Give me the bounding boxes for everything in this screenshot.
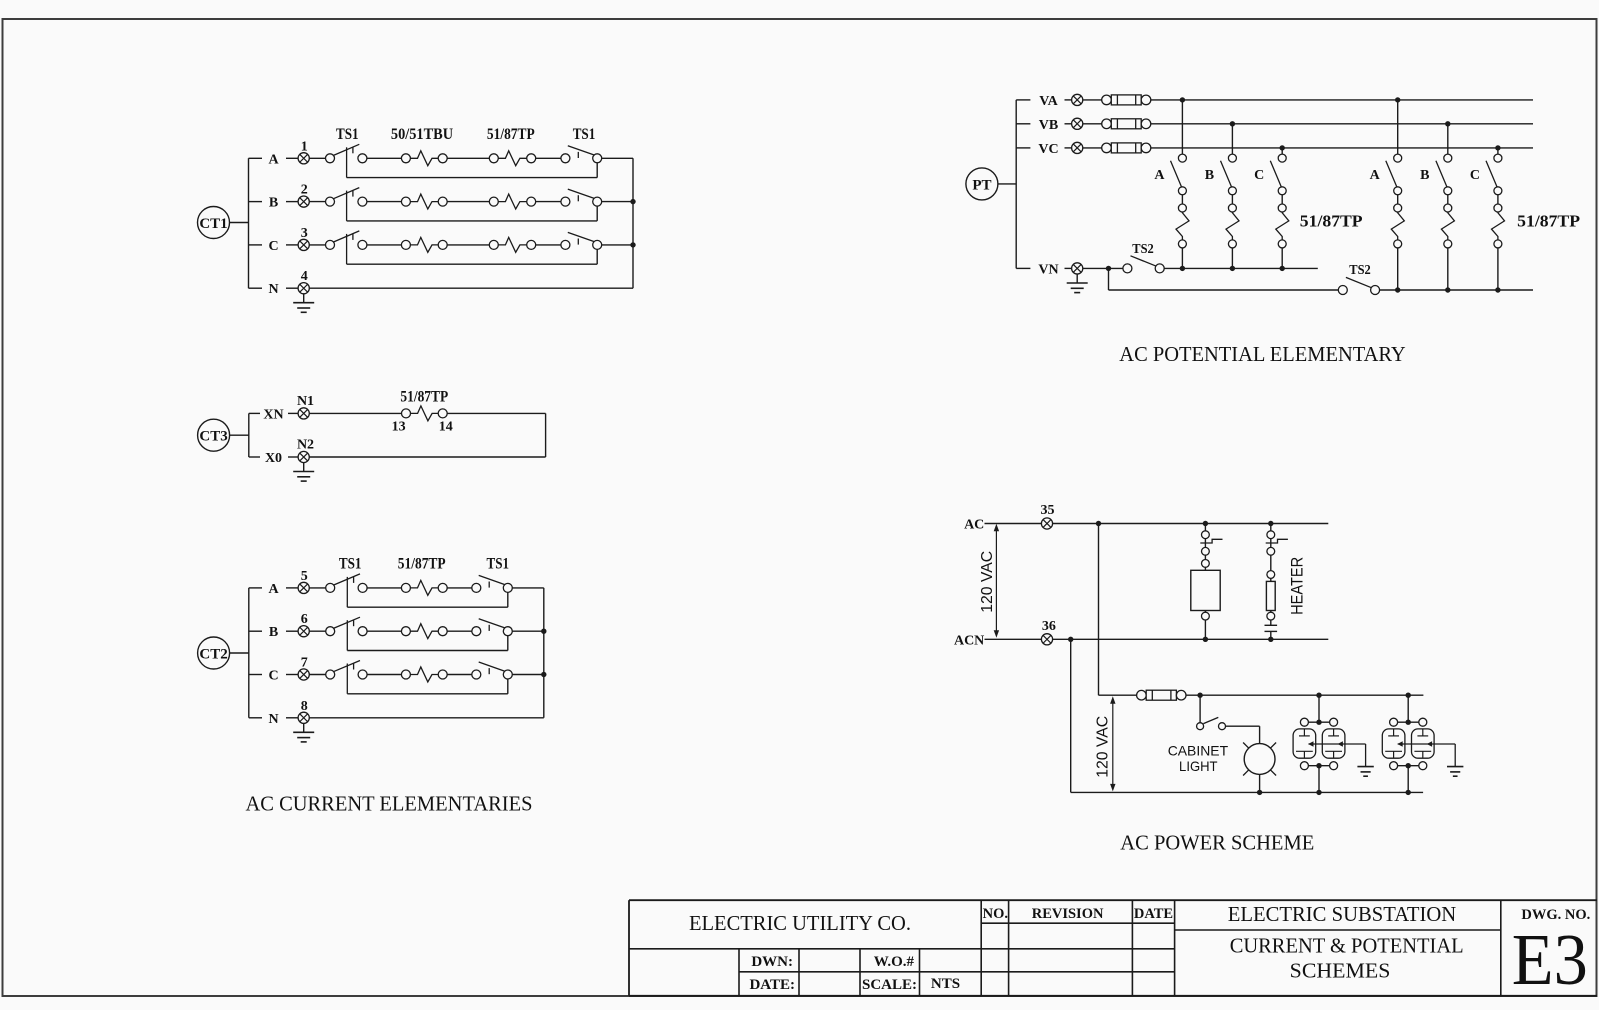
svg-text:TS1: TS1 bbox=[339, 556, 362, 573]
svg-text:TS2: TS2 bbox=[1349, 263, 1371, 278]
svg-text:B: B bbox=[269, 625, 278, 640]
svg-text:SCALE:: SCALE: bbox=[862, 977, 917, 993]
duplex receptacle bbox=[1293, 695, 1345, 792]
junction on CT2 right bus row B bbox=[541, 629, 546, 634]
junction phase B tap bbox=[1445, 121, 1450, 126]
thermostat contact branch 1 bbox=[1200, 524, 1222, 568]
terminal 7 bbox=[298, 656, 309, 681]
wire: shorting loop below row B bbox=[347, 636, 508, 651]
svg-text:C: C bbox=[268, 239, 278, 254]
svg-text:B: B bbox=[1205, 168, 1214, 183]
node VB label bbox=[1016, 118, 1071, 133]
label HEATER bbox=[1288, 557, 1307, 615]
fuse switch A with relay 51/87TP element bbox=[1386, 100, 1405, 290]
node N label (CT1) bbox=[249, 282, 299, 297]
junction receptacle return at x=1319 bbox=[1316, 790, 1321, 795]
relay element (resistor) row B bbox=[367, 624, 447, 639]
label 51/87TP (CT3) bbox=[400, 389, 448, 406]
svg-text:CT3: CT3 bbox=[199, 429, 227, 445]
terminal N2 bbox=[297, 438, 314, 463]
svg-text:C: C bbox=[1254, 168, 1264, 183]
text W.O.# bbox=[874, 954, 915, 970]
relay element (resistor) row A bbox=[367, 151, 447, 166]
heater element box (branch 1) bbox=[1191, 567, 1220, 639]
node XN label bbox=[249, 407, 298, 422]
switch for cabinet light bbox=[1197, 695, 1260, 743]
relay element (resistor) row B bbox=[367, 194, 447, 209]
node VC label bbox=[1016, 142, 1071, 157]
svg-text:36: 36 bbox=[1042, 619, 1056, 634]
svg-text:AC: AC bbox=[964, 518, 984, 533]
relay element (resistor) row C bbox=[447, 237, 536, 252]
ground symbol (receptacle) bbox=[1447, 767, 1463, 777]
svg-text:CABINET: CABINET bbox=[1168, 743, 1229, 759]
text SCHEMES bbox=[1290, 959, 1391, 983]
svg-text:3: 3 bbox=[301, 226, 308, 241]
junction lamp at return line bbox=[1257, 790, 1262, 795]
svg-text:XN: XN bbox=[263, 407, 283, 422]
wire: CT1 left bus bbox=[248, 158, 250, 288]
title block inner verticals (left part) bbox=[739, 949, 920, 996]
title: AC CURRENT ELEMENTARIES bbox=[246, 792, 533, 816]
terminal VA bbox=[1072, 94, 1083, 105]
svg-text:B: B bbox=[1420, 168, 1429, 183]
thermal cutout (branch 2) bbox=[1265, 620, 1278, 639]
svg-text:A: A bbox=[268, 582, 279, 597]
wire: neutral bus 1 (group 1) bbox=[1164, 267, 1318, 269]
wire: VN to TS2 bbox=[1083, 267, 1123, 269]
wire: drop from AC to lower feed bbox=[1098, 524, 1100, 696]
thermostat contact branch 2 bbox=[1266, 524, 1288, 579]
svg-text:51/87TP: 51/87TP bbox=[487, 126, 535, 143]
node VA label bbox=[1016, 94, 1071, 109]
test switch TS1 contact, row B bbox=[309, 188, 367, 221]
svg-text:CT1: CT1 bbox=[199, 216, 227, 232]
svg-text:A: A bbox=[1154, 168, 1165, 183]
ground symbol below terminal N2 bbox=[293, 463, 314, 482]
ground symbol below terminal 8 bbox=[293, 723, 314, 742]
wire: lower feed after fuse bbox=[1186, 694, 1423, 696]
svg-text:TS1: TS1 bbox=[573, 126, 596, 143]
text NO. bbox=[983, 906, 1008, 922]
svg-text:SCHEMES: SCHEMES bbox=[1290, 959, 1391, 983]
node AC label bbox=[964, 518, 1041, 533]
terminal 6 bbox=[298, 612, 309, 637]
title block outer lines bbox=[629, 900, 1597, 996]
svg-text:TS2: TS2 bbox=[1132, 242, 1154, 257]
wire: neutral bus 2 (group 2) bbox=[1380, 289, 1533, 291]
wire: shorting loop below row C bbox=[347, 249, 598, 264]
current transformer CT3 bbox=[198, 419, 249, 451]
wire: shorting loop below row A bbox=[347, 592, 508, 607]
svg-text:DATE: DATE bbox=[1134, 906, 1173, 922]
label TS1 (CT1 right) bbox=[573, 126, 596, 143]
test switch TS1 shorting contact, row C bbox=[536, 232, 633, 249]
svg-text:B: B bbox=[269, 196, 278, 211]
wire: CT3 left bus bbox=[248, 413, 250, 457]
title: AC POTENTIAL ELEMENTARY bbox=[1119, 342, 1405, 366]
label 50/51TBU bbox=[391, 126, 453, 143]
relay element (resistor) row C bbox=[367, 237, 447, 252]
svg-text:NO.: NO. bbox=[983, 906, 1008, 922]
wire: CT1 right bus bbox=[632, 158, 634, 288]
resistor HEATER (branch 2) bbox=[1266, 578, 1275, 620]
terminal 5 bbox=[298, 569, 309, 594]
junction heater branch 2 at ACN bbox=[1268, 637, 1273, 642]
text DATE: bbox=[749, 977, 795, 993]
label 51/87TP (potential group 2) bbox=[1517, 212, 1580, 231]
terminal 4 bbox=[298, 269, 309, 294]
node A label (CT row) bbox=[249, 582, 298, 597]
test switch TS1 shorting contact, row A bbox=[447, 575, 544, 592]
wire: shorting loop below row A bbox=[347, 163, 598, 178]
wire: shorting loop below row C bbox=[347, 679, 508, 694]
label A (column) bbox=[1154, 168, 1165, 183]
wire: CT3 loop right side bbox=[309, 413, 545, 457]
receptacle ground wire bbox=[1308, 741, 1366, 766]
junction column A at neutral bus bbox=[1180, 266, 1185, 271]
junction heater branch 2 at AC bbox=[1268, 521, 1273, 526]
text SCALE: bbox=[862, 977, 917, 993]
svg-text:2: 2 bbox=[301, 183, 308, 198]
svg-text:VC: VC bbox=[1038, 142, 1058, 157]
fuse switch B with relay 51/87TP element bbox=[1221, 124, 1240, 269]
test switch TS1 contact, row C bbox=[309, 661, 367, 694]
junction VN branch bbox=[1106, 266, 1111, 271]
relay element (resistor) row A bbox=[367, 580, 447, 595]
terminal 3 bbox=[298, 226, 309, 251]
svg-text:VA: VA bbox=[1039, 94, 1058, 109]
svg-text:50/51TBU: 50/51TBU bbox=[391, 126, 453, 143]
fuse on VB bbox=[1083, 119, 1533, 129]
fuse switch B with relay 51/87TP element bbox=[1436, 124, 1455, 290]
terminal 36 bbox=[1041, 619, 1056, 645]
svg-text:C: C bbox=[1470, 168, 1480, 183]
svg-text:CURRENT & POTENTIAL: CURRENT & POTENTIAL bbox=[1230, 934, 1464, 958]
node A label (CT row) bbox=[249, 152, 299, 167]
ground symbol (receptacle) bbox=[1357, 767, 1373, 777]
junction column C at neutral bus bbox=[1495, 287, 1500, 292]
wire: shorting loop below row B bbox=[347, 206, 598, 221]
title block vertical dividers bbox=[981, 900, 1501, 996]
label 51/87TP (CT2) bbox=[398, 556, 446, 573]
svg-text:VB: VB bbox=[1039, 118, 1058, 133]
fuse switch C with relay 51/87TP element bbox=[1486, 148, 1505, 290]
svg-text:NTS: NTS bbox=[931, 976, 960, 992]
svg-text:8: 8 bbox=[301, 699, 308, 714]
terminal VC bbox=[1072, 142, 1083, 153]
svg-text:REVISION: REVISION bbox=[1032, 906, 1104, 922]
relay element (resistor) row C bbox=[367, 667, 447, 682]
fuse on VC bbox=[1083, 143, 1533, 153]
wire: CT2 neutral to right bus bbox=[309, 717, 544, 719]
svg-text:VN: VN bbox=[1038, 262, 1058, 277]
wire: ACN down to bottom return line bbox=[1071, 639, 1423, 792]
svg-text:AC POTENTIAL ELEMENTARY: AC POTENTIAL ELEMENTARY bbox=[1119, 342, 1405, 366]
junction column B at neutral bus bbox=[1230, 266, 1235, 271]
node N label (CT2) bbox=[249, 712, 298, 727]
svg-text:AC POWER SCHEME: AC POWER SCHEME bbox=[1120, 830, 1314, 854]
junction heater branch 1 at ACN bbox=[1203, 637, 1208, 642]
svg-text:7: 7 bbox=[301, 656, 308, 671]
fuse switch A with relay 51/87TP element bbox=[1171, 100, 1190, 269]
junction phase B tap bbox=[1230, 121, 1235, 126]
svg-text:4: 4 bbox=[301, 269, 308, 284]
duplex receptacle bbox=[1382, 695, 1434, 792]
junction heater branch 1 at AC bbox=[1203, 521, 1208, 526]
svg-text:TS1: TS1 bbox=[336, 126, 359, 143]
svg-text:13: 13 bbox=[392, 420, 406, 435]
ground symbol below terminal 4 bbox=[293, 294, 314, 313]
svg-text:LIGHT: LIGHT bbox=[1179, 758, 1218, 774]
junction receptacle return at x=1408.2 bbox=[1406, 790, 1411, 795]
label B (column) bbox=[1420, 168, 1429, 183]
fuse on lower feed bbox=[1137, 690, 1186, 700]
terminal 1 bbox=[298, 139, 309, 164]
node C label (CT row) bbox=[249, 669, 298, 684]
test switch TS1 shorting contact, row B bbox=[447, 619, 544, 636]
relay element (resistor) row B bbox=[447, 194, 536, 209]
test switch TS1 contact, row B bbox=[309, 617, 367, 650]
test switch TS1 shorting contact, row A bbox=[536, 146, 633, 163]
label TS1 (CT1 left) bbox=[336, 126, 359, 143]
label TS1 (CT2 left) bbox=[339, 556, 362, 573]
label TS1 (CT2 right) bbox=[487, 556, 510, 573]
label CABINET LIGHT bbox=[1168, 743, 1229, 774]
terminal 2 bbox=[298, 183, 309, 208]
label 51/87TP (potential group 1) bbox=[1300, 212, 1363, 231]
node ACN label bbox=[954, 633, 1041, 648]
svg-text:CT2: CT2 bbox=[199, 647, 227, 663]
relay element (resistor) row A bbox=[447, 151, 536, 166]
svg-text:E3: E3 bbox=[1512, 919, 1588, 1000]
text DWG. NO. bbox=[1521, 907, 1590, 923]
test switch TS2 (right) bbox=[1338, 263, 1379, 295]
svg-text:AC CURRENT ELEMENTARIES: AC CURRENT ELEMENTARIES bbox=[246, 792, 533, 816]
svg-text:51/87TP: 51/87TP bbox=[1300, 212, 1363, 231]
junction phase C tap bbox=[1280, 145, 1285, 150]
receptacle ground wire bbox=[1397, 741, 1455, 766]
ground symbol below VN terminal bbox=[1067, 274, 1088, 293]
text DATE bbox=[1134, 906, 1173, 922]
label B (column) bbox=[1205, 168, 1214, 183]
svg-text:A: A bbox=[268, 152, 279, 167]
relay 51/87TP neutral element (resistor), pins 13-14 bbox=[309, 406, 453, 435]
junction receptacle feed at x=1319 bbox=[1316, 693, 1321, 698]
label 51/87TP (CT1) bbox=[487, 126, 535, 143]
title: AC POWER SCHEME bbox=[1120, 830, 1314, 854]
junction phase C tap bbox=[1495, 145, 1500, 150]
dimension 120 VAC (lower) bbox=[1094, 696, 1115, 791]
svg-text:X0: X0 bbox=[265, 451, 282, 466]
test switch TS1 shorting contact, row B bbox=[536, 189, 633, 206]
dimension 120 VAC (upper) bbox=[979, 524, 999, 638]
test switch TS1 contact, row A bbox=[309, 144, 367, 177]
wire: CT1 neutral to right bus bbox=[309, 287, 633, 289]
svg-text:TS1: TS1 bbox=[487, 556, 510, 573]
node B label (CT row) bbox=[249, 196, 299, 211]
svg-text:ELECTRIC UTILITY CO.: ELECTRIC UTILITY CO. bbox=[689, 911, 911, 935]
svg-text:N: N bbox=[268, 282, 278, 297]
lamp CABINET LIGHT bbox=[1243, 743, 1276, 793]
wire: PT left bus bbox=[1015, 100, 1017, 269]
drawing number E3 bbox=[1512, 919, 1588, 1000]
svg-text:HEATER: HEATER bbox=[1288, 557, 1307, 615]
junction ACN to lower return bbox=[1068, 637, 1073, 642]
svg-text:51/87TP: 51/87TP bbox=[1517, 212, 1580, 231]
junction AC feed drop bbox=[1096, 521, 1101, 526]
text ELECTRIC SUBSTATION bbox=[1228, 902, 1456, 926]
junction column C at neutral bus bbox=[1280, 266, 1285, 271]
junction on CT1 right bus row B bbox=[630, 199, 635, 204]
potential transformer PT bbox=[966, 168, 1016, 200]
svg-text:DWN:: DWN: bbox=[751, 954, 793, 970]
terminal VB bbox=[1072, 118, 1083, 129]
svg-text:ELECTRIC SUBSTATION: ELECTRIC SUBSTATION bbox=[1228, 902, 1456, 926]
node B label (CT row) bbox=[249, 625, 298, 640]
current transformer CT2 bbox=[198, 637, 249, 669]
svg-text:N1: N1 bbox=[297, 394, 314, 409]
text NTS bbox=[931, 976, 960, 992]
wire: CT2 right bus bbox=[543, 588, 545, 718]
test switch TS1 shorting contact, row C bbox=[447, 662, 544, 679]
svg-text:120 VAC: 120 VAC bbox=[1094, 716, 1111, 778]
svg-text:51/87TP: 51/87TP bbox=[400, 389, 448, 406]
label C (column) bbox=[1254, 168, 1264, 183]
svg-text:N: N bbox=[268, 712, 278, 727]
svg-text:N2: N2 bbox=[297, 438, 314, 453]
text DWN: bbox=[751, 954, 793, 970]
wire: AC line bbox=[1053, 523, 1329, 525]
title block horizontal dividers bbox=[629, 923, 1501, 972]
junction column B at neutral bus bbox=[1445, 287, 1450, 292]
junction cabinet light branch bbox=[1197, 693, 1202, 698]
terminal 8 bbox=[298, 699, 309, 724]
junction column A at neutral bus bbox=[1395, 287, 1400, 292]
label A (column) bbox=[1370, 168, 1381, 183]
svg-text:6: 6 bbox=[301, 612, 308, 627]
svg-text:5: 5 bbox=[301, 569, 308, 584]
current transformer CT1 bbox=[198, 207, 249, 239]
svg-text:14: 14 bbox=[439, 420, 453, 435]
fuse switch C with relay 51/87TP element bbox=[1270, 148, 1289, 269]
terminal N1 bbox=[297, 394, 314, 419]
text ELECTRIC UTILITY CO. bbox=[689, 911, 911, 935]
svg-text:120 VAC: 120 VAC bbox=[979, 551, 996, 613]
terminal VN bbox=[1072, 263, 1083, 274]
node X0 label bbox=[249, 451, 298, 466]
junction on CT1 right bus row C bbox=[630, 242, 635, 247]
junction phase A tap bbox=[1395, 97, 1400, 102]
svg-text:35: 35 bbox=[1041, 503, 1055, 518]
wire: ACN line bbox=[1053, 638, 1329, 640]
svg-text:1: 1 bbox=[301, 139, 308, 154]
test switch TS1 contact, row A bbox=[309, 574, 367, 607]
fuse on VA bbox=[1083, 95, 1533, 105]
svg-text:W.O.#: W.O.# bbox=[874, 954, 915, 970]
test switch TS1 contact, row C bbox=[309, 231, 367, 264]
junction on CT2 right bus row C bbox=[541, 672, 546, 677]
svg-text:PT: PT bbox=[972, 177, 991, 193]
node C label (CT row) bbox=[249, 239, 299, 254]
svg-text:C: C bbox=[268, 669, 278, 684]
svg-text:51/87TP: 51/87TP bbox=[398, 556, 446, 573]
terminal 35 bbox=[1041, 503, 1055, 529]
wire: drop to neutral bus 2 bbox=[1109, 268, 1339, 290]
junction receptacle feed at x=1408.2 bbox=[1406, 693, 1411, 698]
svg-text:A: A bbox=[1370, 168, 1381, 183]
wire: lower feed line bbox=[1099, 694, 1137, 696]
svg-text:DATE:: DATE: bbox=[749, 977, 795, 993]
junction phase A tap bbox=[1180, 97, 1185, 102]
wire: CT2 left bus bbox=[248, 588, 250, 718]
node VN label bbox=[1016, 262, 1071, 277]
label C (column) bbox=[1470, 168, 1480, 183]
text CURRENT &amp; POTENTIAL bbox=[1230, 934, 1464, 958]
text REVISION bbox=[1032, 906, 1104, 922]
svg-text:ACN: ACN bbox=[954, 633, 984, 648]
test switch TS2 (left) bbox=[1123, 242, 1164, 273]
